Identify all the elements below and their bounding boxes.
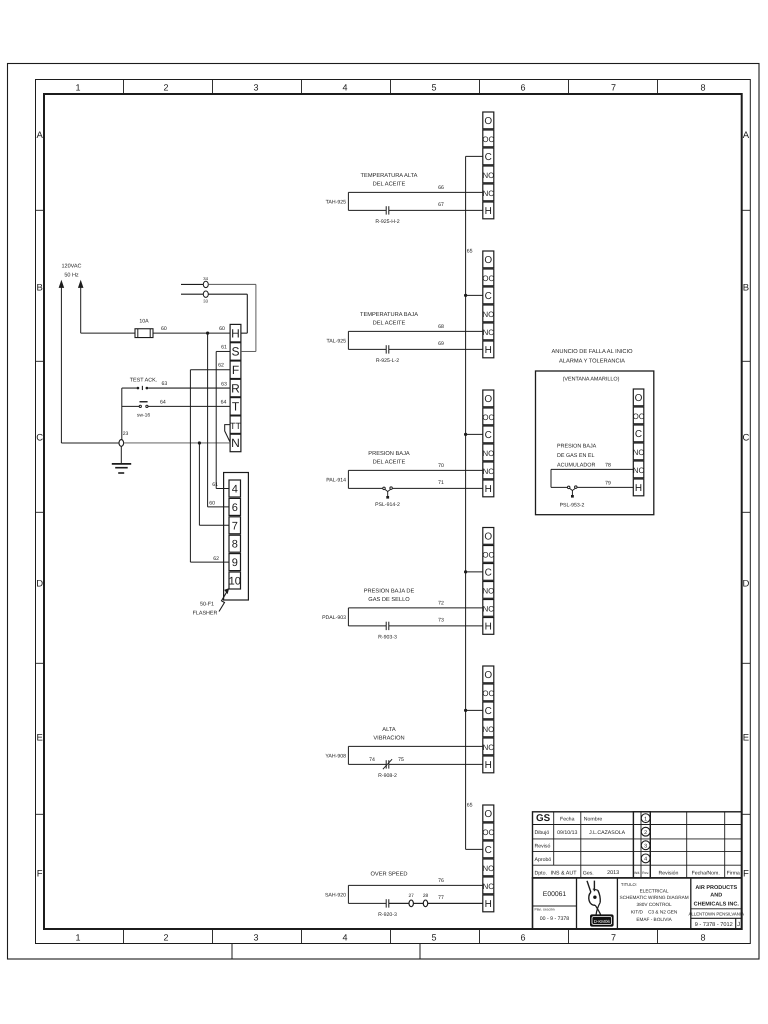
svg-text:10A: 10A [139,319,149,325]
svg-text:71: 71 [438,480,444,486]
svg-text:C: C [635,429,642,440]
svg-text:68: 68 [438,324,444,330]
svg-text:E00061: E00061 [543,891,567,898]
svg-text:C: C [742,433,749,444]
svg-text:NO: NO [482,171,494,180]
svg-text:8: 8 [700,933,705,943]
svg-text:Firma: Firma [727,871,740,877]
svg-text:DEL ACEITE: DEL ACEITE [373,181,406,187]
svg-text:NO: NO [482,587,494,596]
svg-text:OC: OC [482,274,494,283]
svg-text:5: 5 [431,933,436,943]
svg-text:50 Hz: 50 Hz [64,273,79,279]
svg-text:73: 73 [438,617,444,623]
svg-text:1: 1 [644,816,647,822]
svg-text:PAL-914: PAL-914 [326,477,346,483]
svg-text:6: 6 [520,83,525,93]
svg-text:R-908-2: R-908-2 [378,773,397,779]
svg-text:60: 60 [209,501,215,507]
svg-text:C: C [485,152,492,163]
svg-text:Plan. sección: Plan. sección [535,908,555,912]
svg-text:69: 69 [438,341,444,347]
svg-text:O: O [484,116,492,127]
svg-text:OC: OC [482,828,494,837]
svg-text:F: F [232,363,239,377]
svg-text:72: 72 [438,601,444,607]
svg-text:Aprobó: Aprobó [535,857,552,863]
svg-text:380V CONTROL: 380V CONTROL [637,902,673,907]
svg-text:(VENTANA AMARILLO): (VENTANA AMARILLO) [563,377,620,383]
svg-text:OC: OC [482,689,494,698]
svg-text:H: H [231,326,240,340]
svg-text:NC: NC [633,466,645,475]
svg-text:60: 60 [161,326,167,332]
svg-text:28: 28 [423,893,429,899]
svg-text:NC: NC [483,882,495,891]
svg-text:SAH-920: SAH-920 [325,892,346,898]
svg-text:NO: NO [482,449,494,458]
svg-text:PDAL-903: PDAL-903 [322,615,346,621]
svg-text:EMAF - BOLIVIA: EMAF - BOLIVIA [636,917,672,922]
svg-text:PSL-914-2: PSL-914-2 [375,502,400,508]
svg-text:23: 23 [123,431,129,437]
svg-text:O: O [484,255,492,266]
svg-text:7: 7 [232,520,238,532]
svg-text:Ges.: Ges. [583,871,594,877]
svg-text:B: B [743,283,749,294]
svg-text:Nombre: Nombre [584,817,603,823]
svg-text:62: 62 [213,556,219,562]
svg-text:120VAC: 120VAC [61,264,81,270]
svg-text:64: 64 [160,399,166,405]
svg-text:65: 65 [467,249,473,255]
svg-text:O: O [635,393,643,404]
svg-text:D-KM06: D-KM06 [594,919,611,924]
svg-text:PSL-953-2: PSL-953-2 [560,503,585,509]
svg-text:DEL ACEITE: DEL ACEITE [373,459,406,465]
svg-text:D: D [36,579,43,590]
svg-text:8: 8 [232,539,238,551]
svg-text:77: 77 [438,895,444,901]
svg-text:ANUNCIO DE FALLA AL INICIO: ANUNCIO DE FALLA AL INICIO [551,349,633,355]
svg-text:E: E [743,733,749,744]
svg-text:O: O [484,394,492,405]
svg-text:TEMPERATURA BAJA: TEMPERATURA BAJA [360,312,418,318]
svg-text:2: 2 [163,933,168,943]
svg-text:70: 70 [438,463,444,469]
svg-text:ACUMULADOR: ACUMULADOR [557,463,595,469]
svg-text:33: 33 [203,298,208,303]
svg-text:TT: TT [230,421,241,431]
svg-text:OC: OC [482,135,494,144]
svg-text:3: 3 [253,83,258,93]
svg-text:F: F [37,869,43,880]
svg-text:OC: OC [482,413,494,422]
svg-text:67: 67 [438,202,444,208]
svg-text:D: D [742,579,749,590]
svg-text:34: 34 [203,276,208,281]
svg-text:VIBRACION: VIBRACION [373,735,404,741]
svg-text:74: 74 [369,757,375,763]
svg-text:65: 65 [467,803,473,809]
svg-text:A: A [743,130,750,141]
svg-text:61: 61 [221,344,227,350]
svg-text:NO: NO [482,864,494,873]
svg-text:FLASHER: FLASHER [193,611,218,617]
svg-text:60: 60 [219,326,225,332]
svg-text:C: C [485,845,492,856]
svg-text:4: 4 [644,857,647,863]
svg-text:INS & AUT: INS & AUT [551,871,578,877]
svg-text:9: 9 [232,557,238,569]
svg-text:6: 6 [520,933,525,943]
svg-text:2013: 2013 [607,870,619,876]
svg-text:PRESION BAJA: PRESION BAJA [368,451,410,457]
svg-text:H: H [485,345,492,356]
svg-text:Rev.: Rev. [642,871,649,875]
svg-text:63: 63 [162,381,168,387]
svg-text:TITULO:: TITULO: [621,882,637,887]
svg-text:H: H [635,483,642,494]
svg-text:DEL ACEITE: DEL ACEITE [373,320,406,326]
svg-text:S: S [231,345,239,359]
svg-text:Fecha/Nom.: Fecha/Nom. [692,871,720,877]
svg-text:J.L.CAZASOLA: J.L.CAZASOLA [589,830,626,836]
svg-text:7: 7 [611,933,616,943]
svg-text:R-925-H-2: R-925-H-2 [375,219,399,225]
svg-text:2: 2 [163,83,168,93]
svg-text:Revisó: Revisó [535,844,551,850]
svg-text:TEMPERATURA ALTA: TEMPERATURA ALTA [361,173,418,179]
svg-text:SCHEMATIC WIRING DIAGRAM: SCHEMATIC WIRING DIAGRAM [620,895,689,900]
svg-text:O: O [484,670,492,681]
svg-text:H: H [485,484,492,495]
svg-text:00 - 9 - 7378: 00 - 9 - 7378 [540,916,570,922]
svg-text:GS: GS [536,813,551,824]
svg-text:Dpto.: Dpto. [535,871,547,877]
svg-text:H: H [485,899,492,910]
svg-text:H: H [485,760,492,771]
svg-text:4: 4 [342,933,347,943]
svg-text:2: 2 [644,830,647,836]
svg-text:OVER SPEED: OVER SPEED [371,872,408,878]
svg-text:ELECTRICAL: ELECTRICAL [640,889,669,894]
svg-text:R-925-L-2: R-925-L-2 [376,358,399,364]
svg-text:CHEMICALS INC.: CHEMICALS INC. [694,902,740,908]
svg-text:NC: NC [483,605,495,614]
svg-text:DE GAS EN EL: DE GAS EN EL [557,453,594,459]
svg-text:NC: NC [483,328,495,337]
svg-text:6: 6 [232,502,238,514]
svg-text:AND: AND [710,893,722,899]
svg-text:R-920-3: R-920-3 [378,912,397,918]
svg-text:27: 27 [409,893,415,899]
svg-text:O: O [484,809,492,820]
svg-text:3: 3 [253,933,258,943]
svg-text:Revisión: Revisión [659,871,679,877]
svg-text:10: 10 [229,576,241,588]
svg-text:C: C [485,430,492,441]
svg-text:TEST ACK.: TEST ACK. [130,377,157,383]
svg-text:78: 78 [605,463,611,469]
svg-text:C: C [485,291,492,302]
svg-text:NC: NC [483,467,495,476]
svg-text:GAS DE SELLO: GAS DE SELLO [368,597,410,603]
svg-text:C: C [36,433,43,444]
svg-text:N: N [231,436,240,450]
svg-text:9 - 7378 - 7012: 9 - 7378 - 7012 [695,922,733,928]
svg-text:O: O [484,532,492,543]
svg-text:NC: NC [483,189,495,198]
svg-text:ALTA: ALTA [382,727,396,733]
svg-text:F: F [743,869,749,880]
svg-text:50-F1: 50-F1 [200,602,214,608]
svg-text:61: 61 [212,482,218,488]
svg-text:PRESION BAJA DE: PRESION BAJA DE [364,588,415,594]
svg-text:KIT/D C3 & N2 GEN: KIT/D C3 & N2 GEN [631,910,677,915]
svg-text:Dibujó: Dibujó [535,830,550,836]
svg-text:H: H [485,206,492,217]
svg-text:62: 62 [218,363,224,369]
svg-text:75: 75 [398,757,404,763]
svg-text:sw-16: sw-16 [137,413,151,419]
svg-text:R-903-3: R-903-3 [378,634,397,640]
svg-text:7: 7 [611,83,616,93]
svg-text:J: J [737,921,740,928]
svg-text:4: 4 [342,83,347,93]
svg-text:5: 5 [431,83,436,93]
svg-text:3: 3 [644,843,647,849]
svg-text:YAH-908: YAH-908 [325,753,346,759]
svg-text:ALARMA Y TOLERANCIA: ALARMA Y TOLERANCIA [559,359,625,365]
svg-text:8: 8 [700,83,705,93]
svg-text:OC: OC [482,551,494,560]
svg-text:NO: NO [482,725,494,734]
svg-text:Fecha: Fecha [560,817,575,823]
svg-text:PRESION BAJA: PRESION BAJA [557,444,597,450]
svg-text:C: C [485,568,492,579]
svg-text:1: 1 [75,933,80,943]
svg-text:R: R [231,381,240,395]
svg-text:OC: OC [633,412,645,421]
svg-text:09/10/13: 09/10/13 [557,830,577,836]
svg-text:63: 63 [221,381,227,387]
svg-text:66: 66 [438,185,444,191]
svg-text:1: 1 [75,83,80,93]
svg-text:79: 79 [605,480,611,486]
svg-text:64: 64 [221,400,227,406]
svg-text:NC: NC [483,743,495,752]
svg-text:NO: NO [482,310,494,319]
svg-text:76: 76 [438,878,444,884]
svg-text:B: B [37,283,43,294]
svg-text:T: T [232,400,240,414]
svg-text:NO: NO [633,448,645,457]
svg-text:C: C [485,706,492,717]
svg-text:ALLENTOWN PENSILVANIA: ALLENTOWN PENSILVANIA [689,911,745,916]
svg-text:TAH-925: TAH-925 [326,199,346,205]
svg-text:H: H [485,622,492,633]
svg-text:4: 4 [232,484,238,496]
svg-text:A: A [37,130,44,141]
svg-text:E: E [37,733,43,744]
svg-text:TAL-925: TAL-925 [326,338,346,344]
svg-text:Wd.: Wd. [634,871,640,875]
svg-text:AIR PRODUCTS: AIR PRODUCTS [695,885,737,891]
